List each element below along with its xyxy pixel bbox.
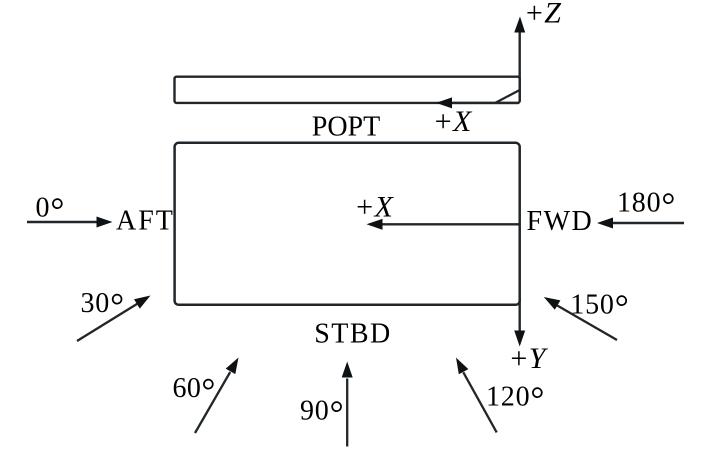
svg-text:+Y: +Y: [509, 342, 549, 375]
120 deg arrow: [463, 372, 496, 432]
svg-text:150°: 150°: [570, 288, 629, 327]
svg-text:90°: 90°: [300, 394, 344, 433]
90 deg arrow: [346, 379, 348, 447]
svg-text:FWD: FWD: [527, 206, 594, 237]
svg-text:180°: 180°: [617, 185, 676, 224]
hull side-view rectangle: [175, 77, 520, 103]
svg-text:60°: 60°: [173, 371, 216, 410]
0 deg arrow: [27, 221, 97, 223]
svg-text:0°: 0°: [36, 191, 66, 230]
180 deg arrow: [613, 222, 684, 224]
svg-text:+X: +X: [354, 191, 394, 224]
svg-text:STBD: STBD: [314, 319, 392, 350]
svg-text:AFT: AFT: [116, 206, 175, 237]
svg-text:120°: 120°: [486, 380, 545, 419]
svg-text:+Z: +Z: [524, 0, 561, 30]
+Y axis arrow: [519, 298, 521, 332]
svg-text:POPT: POPT: [312, 112, 380, 143]
plan-view rectangle: [175, 143, 520, 305]
hull stern diagonal: [495, 90, 520, 103]
150 deg arrow: [557, 305, 617, 340]
60 deg arrow: [195, 372, 230, 433]
30 deg arrow: [77, 304, 138, 341]
+X axis arrow (plan view): [382, 223, 520, 225]
+Z axis arrow: [519, 32, 521, 102]
svg-text:+X: +X: [433, 105, 473, 138]
+X axis arrow (side view): [452, 102, 519, 104]
svg-text:30°: 30°: [81, 286, 125, 325]
